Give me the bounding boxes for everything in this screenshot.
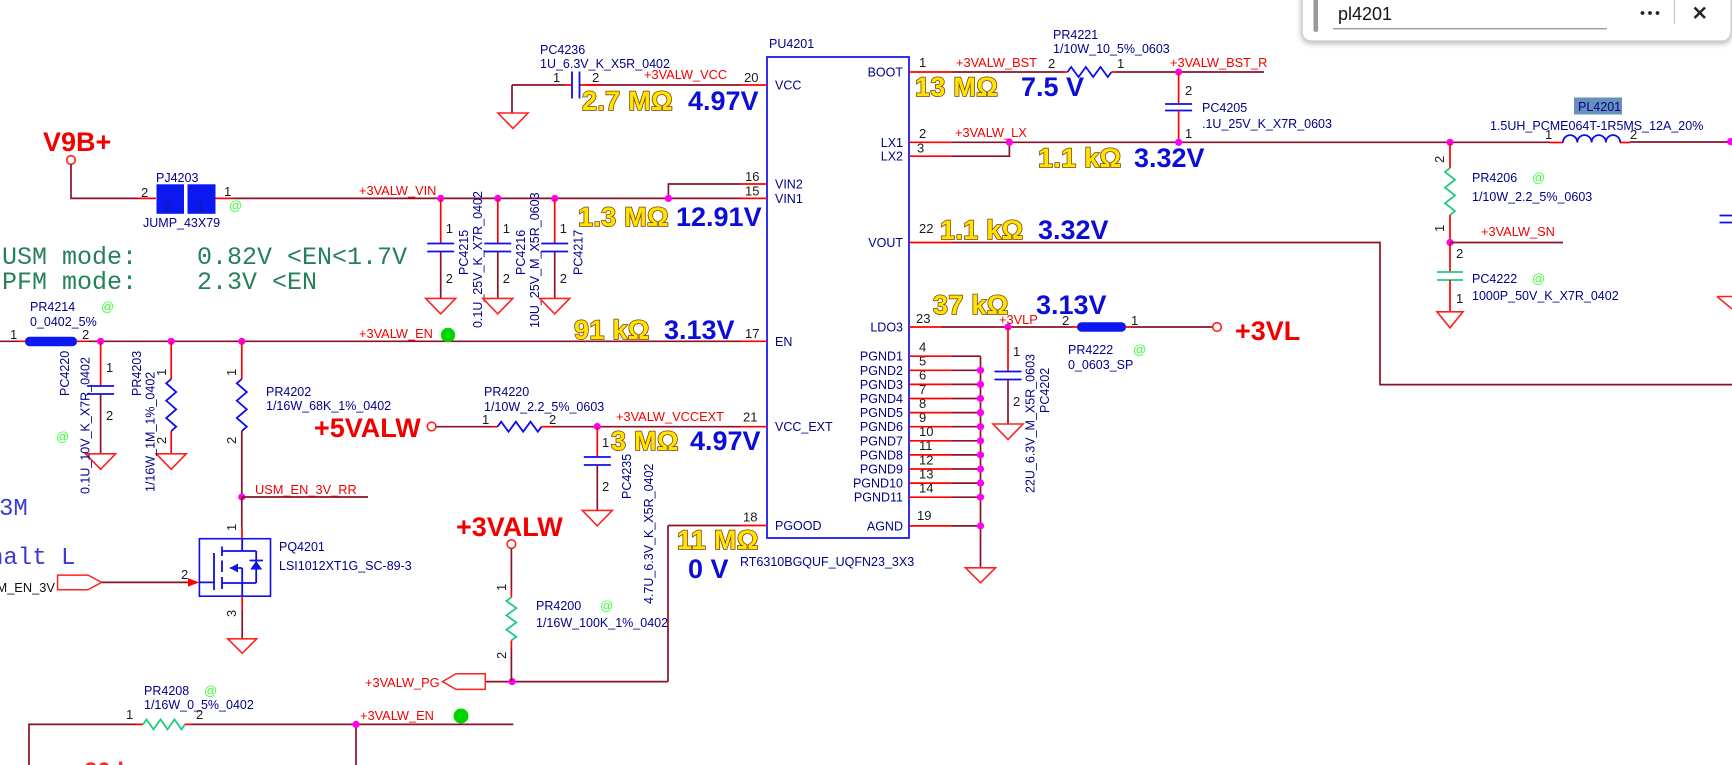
junction dots on LX net — [1006, 138, 1732, 146]
svg-text:1: 1 — [494, 584, 509, 591]
svg-text:LX1: LX1 — [881, 136, 903, 150]
svg-text:15: 15 — [745, 184, 759, 199]
label PR4214 — [30, 300, 97, 329]
svg-text:1: 1 — [224, 184, 231, 199]
pin numbers PQ4201 — [181, 524, 239, 617]
wire PGND/AGND stubs — [909, 356, 981, 526]
value 1.5UH_PCME064T-1R5MS_12A_20% — [1490, 119, 1703, 133]
pin numbers PC4222 — [1456, 246, 1463, 306]
svg-text:7.5 V: 7.5 V — [1021, 72, 1084, 102]
svg-text:@: @ — [204, 683, 217, 698]
svg-text:PGND10: PGND10 — [853, 477, 903, 491]
value 1/16W_1M_1%_0402 (rotated) — [144, 372, 158, 492]
resistor PR4222 (0 ohm bar) — [1077, 322, 1126, 331]
svg-text:2: 2 — [503, 271, 510, 286]
green search dot bottom — [454, 709, 469, 724]
svg-text:91 kΩ: 91 kΩ — [574, 315, 650, 345]
ground below PC4236 — [498, 113, 528, 129]
svg-text:1/16W_1M_1%_0402: 1/16W_1M_1%_0402 — [144, 372, 158, 492]
resistor PR4206 — [1445, 142, 1455, 242]
svg-text:18: 18 — [743, 510, 757, 525]
svg-text:2: 2 — [82, 327, 89, 342]
pin numbers PC4202 — [1013, 344, 1020, 409]
voltage 7.5 V — [1021, 72, 1084, 102]
svg-text:PGOOD: PGOOD — [775, 519, 822, 533]
measurement 37 kOhm — [933, 290, 1009, 320]
svg-text:12.91V: 12.91V — [676, 202, 762, 232]
svg-text:VIN2: VIN2 — [775, 178, 803, 192]
svg-text:+3VALW_VIN: +3VALW_VIN — [359, 183, 436, 198]
svg-text:2: 2 — [446, 271, 453, 286]
svg-text:@: @ — [1532, 170, 1545, 185]
net label +3VALW_EN bottom — [360, 708, 434, 723]
svg-text:RT6310BGQUF_UQFN23_3X3: RT6310BGQUF_UQFN23_3X3 — [740, 555, 914, 569]
label RT6310BGQUF_UQFN23_3X3 — [740, 555, 914, 569]
svg-text:4: 4 — [919, 340, 926, 355]
partial capacitor at right edge — [1720, 216, 1732, 223]
label PR4222 — [1068, 342, 1146, 372]
node USM_EN_3V_RR — [238, 482, 368, 501]
label PR4208 — [144, 683, 254, 712]
comment PFM mode (green mono) — [2, 268, 317, 297]
svg-text:+3VALW_EN: +3VALW_EN — [360, 708, 434, 723]
label PR4200 — [536, 598, 668, 630]
svg-text:22: 22 — [919, 221, 933, 236]
svg-text:PL4201: PL4201 — [1578, 100, 1621, 114]
svg-text:3 MΩ: 3 MΩ — [611, 426, 679, 456]
svg-text:PGND8: PGND8 — [860, 448, 903, 462]
svg-text:PGND5: PGND5 — [860, 406, 903, 420]
svg-text:3.32V: 3.32V — [1134, 143, 1205, 173]
svg-text:1/16W_68K_1%_0402: 1/16W_68K_1%_0402 — [266, 399, 391, 413]
svg-text:+3VALW_LX: +3VALW_LX — [955, 125, 1027, 140]
wire LDO3/+3VLP net pin 23 — [909, 326, 1213, 328]
svg-text:1: 1 — [482, 412, 489, 427]
find bar more-options ellipsis — [1641, 11, 1660, 15]
svg-text:23: 23 — [916, 311, 930, 326]
svg-text:BOOT: BOOT — [868, 66, 904, 80]
junction dot +3VLP — [1004, 323, 1011, 330]
green search dot on +3VALW_EN — [441, 328, 455, 342]
svg-text:2: 2 — [1062, 313, 1069, 328]
svg-text:PC4222: PC4222 — [1472, 272, 1517, 286]
measurement 91 kOhm — [574, 315, 650, 345]
svg-text:@: @ — [1532, 271, 1545, 286]
net label +3VALW_VCC — [644, 67, 727, 82]
measurement 3 MOhm — [611, 426, 679, 456]
svg-text:0 V: 0 V — [688, 554, 729, 584]
label PC4202 (rotated) — [1038, 368, 1052, 413]
pin numbers PR4202 — [224, 369, 239, 444]
ground below PC4235 — [582, 510, 612, 526]
capacitor PC4220 — [87, 341, 114, 454]
svg-text:1.5UH_PCME064T-1R5MS_12A_20%: 1.5UH_PCME064T-1R5MS_12A_20% — [1490, 119, 1703, 133]
svg-text:1000P_50V_K_X7R_0402: 1000P_50V_K_X7R_0402 — [1472, 289, 1619, 303]
svg-text:16: 16 — [745, 169, 759, 184]
svg-text:1: 1 — [1432, 225, 1447, 232]
net label +3VALW_BST — [956, 55, 1037, 70]
svg-text:2: 2 — [919, 126, 926, 141]
green marker @ PR4214 — [101, 299, 114, 314]
capacitor PC4217 — [541, 198, 568, 298]
voltage 3.32V (VOUT) — [1038, 215, 1109, 245]
svg-text:halt L: halt L — [0, 545, 75, 572]
svg-text:1/10W_2.2_5%_0603: 1/10W_2.2_5%_0603 — [484, 400, 604, 414]
jumper PJ4203 — [157, 184, 216, 214]
svg-text:1: 1 — [553, 70, 560, 85]
svg-text:4.97V: 4.97V — [688, 86, 759, 116]
label PC4235 (rotated) — [620, 454, 634, 499]
capacitor PC4222 — [1437, 243, 1463, 312]
svg-text:1: 1 — [1013, 344, 1020, 359]
ground below PR4203 — [156, 454, 186, 470]
resistor R PR4214 (0 ohm bar) — [25, 337, 77, 346]
svg-text:1: 1 — [197, 199, 204, 214]
power terminal V9B+ — [43, 127, 111, 157]
wire +3VALW_BST_R — [1112, 71, 1265, 73]
svg-text:V9B+: V9B+ — [43, 127, 111, 157]
pin numbers PR4203 — [154, 369, 169, 444]
junction dot +3VALW_VCCEXT — [594, 423, 601, 430]
junction dots on +3VALW_VIN — [437, 195, 672, 202]
net label +3VALW_EN — [359, 326, 433, 341]
svg-text:USM_EN_3V_RR: USM_EN_3V_RR — [255, 482, 357, 497]
svg-text:1: 1 — [1185, 126, 1192, 141]
ground below AGND bus — [966, 568, 996, 583]
svg-text:19: 19 — [917, 508, 931, 523]
junction dot BOOT/PC4205 — [1175, 68, 1182, 75]
svg-text:3.32V: 3.32V — [1038, 215, 1109, 245]
label PC4216 (rotated) — [514, 230, 528, 275]
svg-text:PFM mode: 2.3V <EN: PFM mode: 2.3V <EN — [2, 268, 317, 297]
svg-text:JUMP_43X79: JUMP_43X79 — [143, 216, 220, 230]
label PQ4201 — [279, 540, 412, 573]
svg-text:2: 2 — [1456, 246, 1463, 261]
label PC4236 — [540, 43, 670, 71]
voltage 3.13V — [664, 315, 735, 345]
svg-text:PJ4203: PJ4203 — [156, 171, 198, 185]
svg-text:13 MΩ: 13 MΩ — [915, 72, 998, 102]
label PC4217 (rotated) — [571, 230, 585, 275]
partial ground at right edge — [1717, 297, 1732, 310]
svg-text:2: 2 — [1048, 56, 1055, 71]
svg-text:PC4202: PC4202 — [1038, 368, 1052, 413]
svg-text:2: 2 — [1185, 83, 1192, 98]
svg-text:@: @ — [229, 198, 242, 213]
capacitor PC4202 — [995, 327, 1022, 424]
find bar caret — [1314, 0, 1319, 32]
junction dot bottom EN — [352, 721, 359, 728]
svg-text:2: 2 — [592, 70, 599, 85]
svg-text:PGND2: PGND2 — [860, 364, 903, 378]
svg-text:21: 21 — [743, 410, 757, 425]
pin names left side of U1 — [775, 79, 833, 534]
svg-text:PR4214: PR4214 — [30, 300, 75, 314]
svg-text:1: 1 — [602, 435, 609, 450]
svg-text:+5VALW: +5VALW — [314, 413, 421, 443]
svg-text:3M: 3M — [0, 496, 28, 523]
label PC4205 — [1202, 101, 1332, 131]
voltage 0 V — [688, 554, 729, 584]
svg-text:+3VALW_BST: +3VALW_BST — [956, 55, 1037, 70]
power terminal +5VALW — [314, 413, 436, 443]
ground below PC4220 — [86, 454, 116, 470]
find bar divider — [1674, 0, 1676, 24]
wire PGOOD net from pin 18 down to +3VALW_PG — [485, 526, 767, 682]
measurement 1.1 kOhm (VOUT) — [940, 215, 1024, 245]
svg-text:@: @ — [600, 598, 613, 613]
svg-text:PR4222: PR4222 — [1068, 343, 1113, 357]
op-amp U1: buck regulator IC PU4201 box — [767, 57, 909, 538]
resistor PR4202 — [237, 341, 247, 497]
junction dots on +3VALW_EN — [97, 338, 245, 345]
svg-text:11 MΩ: 11 MΩ — [677, 525, 759, 555]
pin numbers PL4201 — [1545, 127, 1637, 142]
svg-text:22U_6.3V_M_X5R_0603: 22U_6.3V_M_X5R_0603 — [1024, 354, 1038, 493]
comment USM mode (green mono) — [2, 243, 407, 272]
measurement 1.1 kOhm (LX) — [1038, 143, 1122, 173]
svg-text:PR4203: PR4203 — [130, 351, 144, 396]
capacitor PC4215 — [427, 198, 454, 298]
svg-text:PR4200: PR4200 — [536, 599, 581, 613]
svg-text:PR4206: PR4206 — [1472, 171, 1517, 185]
svg-text:1: 1 — [1117, 56, 1124, 71]
label PR4202 — [266, 385, 391, 413]
label PR4220 — [484, 385, 604, 414]
ground below PC4222 — [1437, 312, 1463, 328]
svg-text:PR4208: PR4208 — [144, 684, 189, 698]
pin numbers PR4221 — [1048, 56, 1124, 71]
svg-text:PC4215: PC4215 — [457, 230, 471, 275]
svg-text:2: 2 — [164, 199, 171, 214]
svg-text:4.7U_6.3V_K_X5R_0402: 4.7U_6.3V_K_X5R_0402 — [642, 464, 656, 604]
svg-text:PGND1: PGND1 — [860, 350, 903, 364]
svg-text:VOUT: VOUT — [868, 236, 903, 250]
svg-text:+3VALW_BST_R: +3VALW_BST_R — [1170, 55, 1267, 70]
svg-text:@: @ — [56, 429, 69, 444]
terminal +3VL — [1213, 316, 1301, 346]
value label 10U_25V_M_X5R_0603 (rotated) — [528, 192, 542, 328]
svg-text:VCC: VCC — [775, 79, 801, 93]
svg-text:0.1U_10V_K_X7R_0402: 0.1U_10V_K_X7R_0402 — [79, 357, 93, 494]
svg-text:17: 17 — [745, 326, 759, 341]
wire +3VALW_LX net: LX1/LX2 pins to inductor — [909, 142, 1731, 156]
svg-text:PC4236: PC4236 — [540, 43, 585, 57]
svg-text:1: 1 — [106, 360, 113, 375]
svg-text:1.1 kΩ: 1.1 kΩ — [1038, 143, 1122, 173]
label PC4220 (rotated) — [58, 351, 72, 396]
svg-text:pl4201: pl4201 — [1338, 4, 1392, 24]
find bar panel — [1302, 0, 1731, 41]
svg-text:2: 2 — [1432, 156, 1447, 163]
ground below PC4217 — [540, 298, 570, 314]
ground below PC4215 — [426, 298, 456, 314]
svg-text:3.13V: 3.13V — [664, 315, 735, 345]
pin names right side of U1 — [853, 66, 903, 534]
inductor L PL4201 — [1563, 135, 1620, 142]
wire ground bus vertical — [980, 356, 982, 568]
pin numbers PC4217 — [560, 221, 567, 286]
wire +3VALW_VCC net: PC4236 to VCC pin 20 — [512, 85, 767, 113]
pin numbers PR4208 — [126, 707, 203, 722]
wire +3VALW_VIN net: PJ4203 pin1 to VIN1 pin 15 — [216, 184, 768, 198]
pin numbers PC4235 — [602, 435, 609, 494]
svg-text:+3VALW: +3VALW — [456, 512, 563, 542]
voltage 3.13V (LDO3) — [1036, 290, 1107, 320]
svg-text:2: 2 — [1630, 127, 1637, 142]
green marker @ PC4220 — [56, 429, 69, 444]
svg-text:1: 1 — [224, 524, 239, 531]
ground below PQ4201 pin 3 — [228, 596, 257, 653]
svg-text:+3VALW_EN: +3VALW_EN — [359, 326, 433, 341]
comment text ault L (clipped, blue mono) — [0, 545, 75, 572]
clipped measurement text bottom edge — [84, 758, 131, 765]
net connector +3VALW_PG (arrow) — [443, 674, 486, 690]
pin numbers PC4236 — [553, 70, 599, 85]
net label +3VALW_PG — [365, 675, 440, 690]
measurement 2.7 MOhm — [582, 86, 673, 116]
svg-text:2: 2 — [196, 707, 203, 722]
capacitor C PC4236 — [572, 72, 580, 99]
terminal circle V9B+ — [67, 156, 76, 165]
svg-text:VCC_EXT: VCC_EXT — [775, 420, 833, 434]
wire V9B+ to PJ4203 pin 2 — [71, 164, 156, 198]
junction dot +3VALW_SN — [1446, 239, 1453, 246]
resistor PR4220 — [436, 422, 767, 432]
pin numbers PR4200 — [494, 584, 509, 659]
find bar query text pl4201 — [1338, 4, 1392, 24]
svg-text:0.1U_25V_K_X7R_0402: 0.1U_25V_K_X7R_0402 — [471, 191, 485, 328]
svg-text:1.3 MΩ: 1.3 MΩ — [578, 202, 669, 232]
svg-text:4.97V: 4.97V — [690, 426, 761, 456]
voltage 3.32V (LX) — [1134, 143, 1205, 173]
svg-text:1: 1 — [126, 707, 133, 722]
svg-text:2: 2 — [106, 408, 113, 423]
svg-text:+3VALW_SN: +3VALW_SN — [1481, 224, 1555, 239]
value label 0.1U_25V_K_X7R_0402 (rotated) — [471, 191, 485, 328]
svg-text:2.7 MΩ: 2.7 MΩ — [582, 86, 673, 116]
svg-text:1: 1 — [503, 221, 510, 236]
svg-text:37 kΩ: 37 kΩ — [933, 290, 1009, 320]
svg-text:1.1 kΩ: 1.1 kΩ — [940, 215, 1024, 245]
svg-text:+3VL: +3VL — [1235, 316, 1300, 346]
svg-text:2: 2 — [549, 412, 556, 427]
svg-text:PR4221: PR4221 — [1053, 28, 1098, 42]
svg-text:PR4202: PR4202 — [266, 385, 311, 399]
pin numbers PC4220 — [106, 360, 113, 423]
svg-text:+3VALW_VCCEXT: +3VALW_VCCEXT — [616, 409, 724, 424]
svg-text:VIN1: VIN1 — [775, 192, 803, 206]
svg-text:1/16W_100K_1%_0402: 1/16W_100K_1%_0402 — [536, 616, 668, 630]
label PR4221 — [1053, 28, 1170, 56]
label PU4201 — [769, 37, 814, 51]
svg-text:PQ4201: PQ4201 — [279, 540, 325, 554]
wire +3VALW_BST net: BOOT pin 1 to PR4221 — [909, 71, 1068, 73]
svg-text:.1U_25V_K_X7R_0603: .1U_25V_K_X7R_0603 — [1202, 117, 1332, 131]
svg-text:PC4216: PC4216 — [514, 230, 528, 275]
pin numbers PJ4203 — [141, 184, 231, 200]
svg-text:+3VALW_VCC: +3VALW_VCC — [644, 67, 727, 82]
svg-text:+3VALW_PG: +3VALW_PG — [365, 675, 440, 690]
svg-text:2: 2 — [181, 567, 188, 582]
label PC4215 (rotated) — [457, 230, 471, 275]
wire to PQ4201 drain — [241, 497, 243, 539]
resistor PR4208 — [143, 719, 185, 729]
svg-text:20: 20 — [744, 70, 758, 85]
pin numbers PC4205 — [1185, 83, 1192, 141]
search highlight + label PL4201 — [1574, 98, 1622, 115]
ground below PC4202 — [993, 424, 1023, 440]
resistor PR4221 — [1068, 67, 1112, 77]
svg-text:1: 1 — [1131, 313, 1138, 328]
value 0.1U_10V_K_X7R_0402 (rotated) — [79, 357, 93, 494]
svg-text:SM_EN_3V: SM_EN_3V — [0, 580, 55, 595]
value 22U_6.3V_M_X5R_0603 (rotated) — [1024, 354, 1038, 493]
pin numbers PR4206 — [1432, 156, 1447, 232]
svg-text:1: 1 — [919, 55, 926, 70]
measurement 11 MOhm — [677, 525, 759, 555]
svg-text:@: @ — [1133, 342, 1146, 357]
net label +3VALW_LX — [955, 125, 1027, 140]
find bar close X — [1695, 8, 1706, 19]
wire VOUT net pin 22 across and down — [909, 243, 1732, 385]
svg-text:2: 2 — [602, 479, 609, 494]
capacitor PC4216 — [484, 198, 511, 298]
capacitor PC4205 — [1165, 72, 1192, 142]
resistor PR4203 — [166, 341, 176, 454]
pin numbers PR4222 — [1062, 313, 1138, 328]
pin numbers of U1 — [743, 55, 933, 525]
value 4.7U_6.3V_K_X5R_0402 (rotated) — [642, 464, 656, 604]
svg-text:PU4201: PU4201 — [769, 37, 814, 51]
svg-text:PC4205: PC4205 — [1202, 101, 1247, 115]
svg-text:PGND3: PGND3 — [860, 378, 903, 392]
svg-text:3: 3 — [224, 610, 239, 617]
pin numbers PR4220 — [482, 412, 556, 427]
net connector M_EN_3V (arrow) — [58, 575, 200, 590]
svg-text:1: 1 — [560, 221, 567, 236]
svg-text:2: 2 — [560, 271, 567, 286]
pin numbers PR4214 — [10, 327, 89, 342]
svg-text:PGND6: PGND6 — [860, 420, 903, 434]
svg-text:1: 1 — [10, 327, 17, 342]
label JUMP_43X79 — [143, 216, 220, 230]
svg-text:PGND9: PGND9 — [860, 463, 903, 477]
svg-text:1: 1 — [224, 369, 239, 376]
label PR4203 (rotated) — [130, 351, 144, 396]
svg-text:2: 2 — [141, 185, 148, 200]
net label +3VALW_BST_R — [1170, 55, 1267, 70]
svg-text:1/10W_2.2_5%_0603: 1/10W_2.2_5%_0603 — [1472, 190, 1592, 204]
svg-text:0_0603_SP: 0_0603_SP — [1068, 358, 1133, 372]
svg-text:PC4235: PC4235 — [620, 454, 634, 499]
net label +3VALW_VIN — [359, 183, 436, 198]
voltage 4.97V (vcc_ext) — [690, 426, 761, 456]
green marker @ PJ4203 — [229, 198, 242, 213]
label PC4222 — [1472, 271, 1619, 303]
net label +3VALW_VCCEXT — [616, 409, 724, 424]
ground below PC4216 — [483, 298, 513, 314]
label PR4206 — [1472, 170, 1592, 204]
measurement 1.3 MOhm — [578, 202, 669, 232]
capacitor PC4235 — [584, 427, 611, 511]
junction dots on ground bus — [977, 367, 984, 530]
svg-text:EN: EN — [775, 335, 792, 349]
svg-text:PGND11: PGND11 — [854, 491, 903, 505]
svg-text:PR4220: PR4220 — [484, 385, 529, 399]
wire +3VALW_EN net: left edge through PR4214 to EN pin 17 — [0, 340, 767, 342]
pin numbers PC4216 — [503, 221, 510, 286]
